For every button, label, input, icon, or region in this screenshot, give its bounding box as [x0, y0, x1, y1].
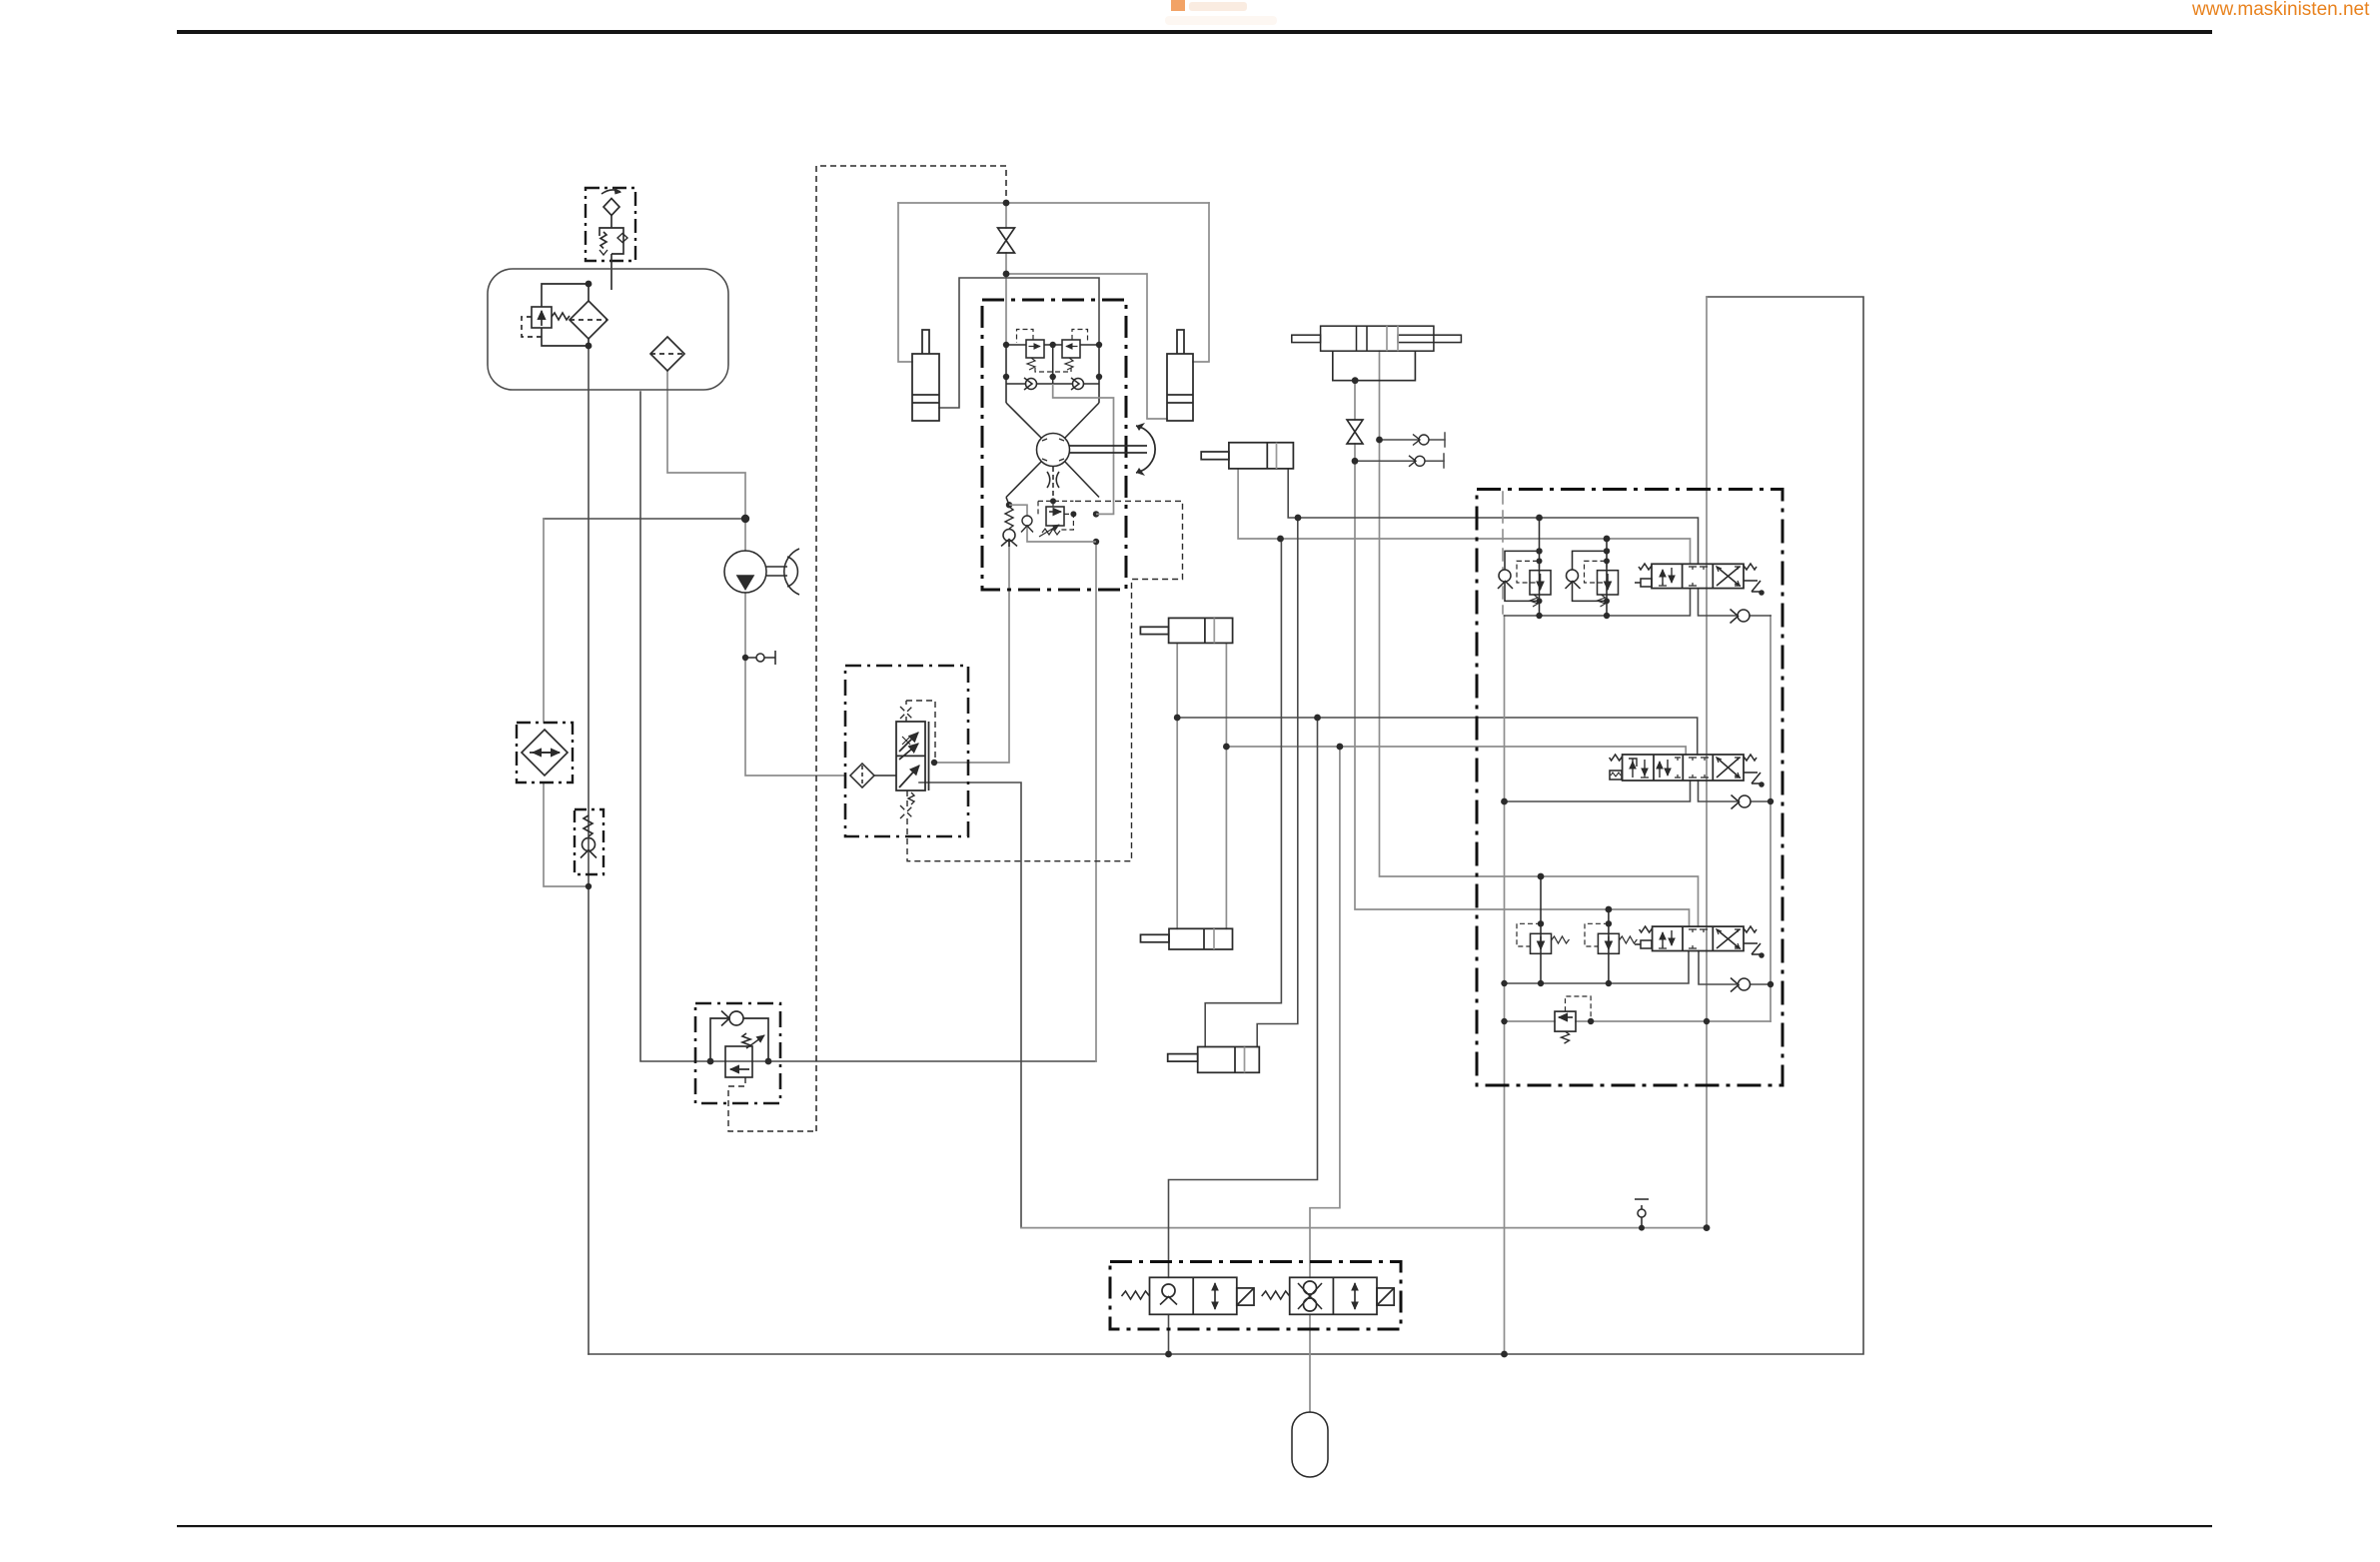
oil cooler — [517, 723, 573, 782]
wire: tank drain from tank bottom to relief block — [640, 392, 1096, 1061]
filter bypass relief valve — [522, 284, 589, 346]
motor brake — [1047, 467, 1059, 499]
rotator cylinder body — [1292, 326, 1462, 351]
motor shaft — [1069, 446, 1147, 453]
wire: long return drop at x=1708 — [1706, 297, 1708, 1228]
motor internal links — [1006, 345, 1099, 403]
wire: solenoid valve 2 to accumulator — [1309, 1314, 1311, 1412]
wire: valve block right spine x=1772 — [1770, 616, 1772, 1021]
return filter F1 — [570, 284, 607, 346]
wire: motor box right exit to relief drain line — [1095, 546, 1097, 1061]
wire: mid cylinder left drop — [1176, 643, 1178, 928]
rotation arrow — [1136, 423, 1155, 476]
lift cylinder upper — [1140, 618, 1232, 643]
grapple cylinder — [1168, 1047, 1260, 1073]
wire: test tap line lower — [1355, 454, 1444, 468]
section3 reducing valve left RV5 — [1517, 876, 1570, 983]
wire: small cylinder right port header y=518 — [1288, 469, 1698, 564]
relief block enclosure — [695, 1003, 780, 1103]
anti-cavitation check left CV1 — [1006, 378, 1099, 390]
wire: solenoid valve 1 feed — [1169, 718, 1318, 1277]
motor bridge to right drop — [1053, 384, 1114, 514]
wire: feed header y=747 to middle spool — [1226, 747, 1686, 755]
valve block main relief RV7 — [1555, 996, 1591, 1043]
rotator needle valve NV2 — [1347, 420, 1363, 444]
brake release valve — [1038, 501, 1073, 537]
wire: feed header y=718 to middle spool — [1177, 718, 1698, 755]
hydraulic tank — [488, 269, 728, 390]
wire: solenoid valve 1 return — [1168, 1314, 1170, 1354]
wire: swing second header y=274 to right cylinder bottom — [1006, 274, 1167, 419]
pump test port — [745, 651, 775, 665]
spool valve section 2 — [1623, 755, 1744, 781]
breather filter box — [586, 188, 635, 261]
wire: swing center line through needle valve — [1005, 203, 1007, 345]
inlet filter F3 — [850, 764, 896, 787]
relief check valve — [710, 1011, 768, 1062]
lift cylinder lower — [1141, 928, 1233, 949]
V1 pilot lines — [900, 501, 1183, 860]
section1 outlet check — [1731, 610, 1751, 624]
anti-cavitation check right CV2 — [1071, 378, 1084, 390]
rotator piston gray lines — [1387, 326, 1398, 351]
wire: small cylinder left port header y=539 — [1238, 469, 1690, 564]
spool 1 spring left — [1635, 564, 1652, 587]
left swing cylinder CL — [912, 330, 939, 421]
svg-text:www.maskinisten.net: www.maskinisten.net — [2191, 0, 2370, 20]
rotator yoke — [1333, 351, 1416, 381]
wire: top section tank gallery y=616 — [1505, 589, 1772, 616]
section3 outlet check — [1731, 978, 1751, 992]
wire: valve block left spine x=1505.5 — [1504, 616, 1506, 1354]
wire: valve block pilot gallery x=1504 dashed — [1502, 492, 1504, 614]
wire: bottom collector line to right riser — [589, 297, 1863, 1354]
crossover relief left RV1 — [1006, 330, 1044, 371]
swing motor enclosure — [982, 300, 1126, 590]
wire: cooler drop and return tie — [544, 519, 589, 886]
wire: rotator left line with needle valve to bottom spool — [1355, 381, 1690, 926]
wire: pump outlet to control valve filter — [745, 593, 845, 776]
wire: rotator center line to bottom spool — [1380, 351, 1699, 926]
wire: tank return main line — [588, 346, 590, 1354]
wire: swing circuit top header y=203 — [898, 203, 1209, 362]
suction strainer F2 — [650, 337, 684, 371]
spool 3 spring and lever right — [1744, 926, 1764, 957]
section1 port relief left RV3 — [1498, 518, 1551, 616]
wire: middle section tank gallery y=802 — [1505, 781, 1772, 801]
flow control valve V1 — [896, 722, 929, 804]
swing motor M1 — [1006, 403, 1099, 498]
crossover relief right RV2 — [1035, 330, 1099, 378]
breather relief valve — [599, 228, 627, 290]
wire: control valve tank port to valve block return — [919, 782, 1021, 1228]
wire: cooler branch header — [544, 518, 745, 520]
shut-off needle valve NV1 — [998, 228, 1015, 253]
wire: bottom section tank gallery y=984 — [1505, 951, 1772, 985]
makeup branch check — [1009, 505, 1096, 542]
right swing cylinder CR — [1167, 330, 1193, 421]
spool 1 spring and lever right — [1744, 564, 1764, 595]
wire: drop to lift cylinder left — [1205, 539, 1281, 1047]
spool 3 spring left — [1635, 926, 1653, 948]
section1 port relief right RV4 — [1566, 539, 1619, 616]
pilot sensing dashed line — [816, 166, 1006, 1131]
wire: mid cylinder right drop — [1225, 643, 1227, 928]
section2 outlet check — [1732, 795, 1752, 809]
accumulator — [1292, 1412, 1328, 1477]
valve block enclosure — [1477, 490, 1783, 1086]
spool valve section 3 — [1653, 926, 1744, 950]
small tilt cylinder — [1201, 443, 1293, 469]
breather air filter F0 — [601, 188, 621, 229]
wire: test tap line upper — [1380, 433, 1446, 447]
control valve enclosure — [845, 666, 968, 836]
return line test port — [1635, 1199, 1649, 1228]
makeup spring check left — [1001, 498, 1017, 548]
spool 2 spring and lever right — [1744, 755, 1764, 786]
wire: suction strainer to pump inlet — [667, 371, 745, 551]
solenoid valve SV1 — [1122, 1277, 1255, 1314]
main relief valve RV0 — [725, 1033, 816, 1131]
wire: solenoid valve 2 feed — [1310, 747, 1340, 1277]
wire: motor box left exit to control valve — [934, 537, 1009, 763]
section3 reducing valve right RV6 — [1585, 909, 1637, 983]
spool valve section 1 — [1652, 564, 1744, 588]
cooler bypass check valve — [575, 809, 603, 874]
test check lower — [1409, 456, 1425, 467]
watermark orange logo stub — [1171, 0, 1185, 11]
watermark ghost — [1165, 2, 1277, 25]
solenoid valve SV2 — [1262, 1277, 1395, 1314]
wire: drop to lift cylinder right — [1257, 518, 1298, 1047]
wire: main relief gallery y=1022 — [1505, 1020, 1772, 1022]
solenoid manifold enclosure — [1110, 1262, 1401, 1330]
test check upper — [1413, 435, 1429, 446]
wire: left cylinder bottom loop to motor right port — [939, 278, 1099, 408]
pump P1 — [724, 549, 799, 595]
page bottom rule — [177, 1525, 2212, 1527]
spool 2 spring left and pilot — [1610, 755, 1623, 780]
page top rule — [177, 30, 2212, 34]
